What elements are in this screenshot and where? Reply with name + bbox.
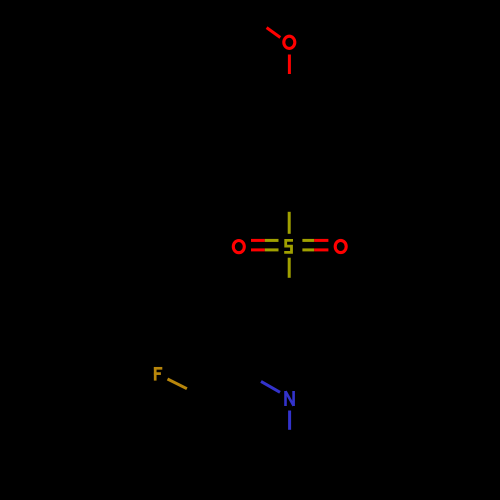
wire double bond S=O2 lower line sulfur half [265,248,279,251]
wire benzene bond C2-C3 [329,116,332,163]
wire bond CH3-O1 oxygen half [267,28,281,38]
wire pyridine bond C10-C11 [248,450,290,474]
wire bond C13-F fluorine half [168,379,187,389]
wire bond C4-S carbon half [288,187,291,212]
wire double bond S=O2 upper line sulfur half [265,239,279,242]
wire benzene bond C3-C4 [289,163,330,187]
wire double bond S=O2 lower line oxygen half [251,248,265,251]
wire bond C9-N nitrogen half [261,381,280,392]
wire double bond S=O3 lower line sulfur half [302,248,314,251]
wire pyridine bond C12-C13 [205,399,208,450]
wire benzene bond C6-C1 [248,92,289,116]
wire bond S-C7 sulfur half [288,258,291,278]
wire benzene bond C1-C2 [289,92,330,116]
atom label F (fluorine) [154,367,162,381]
wire pyridine bond C11-C12 [207,450,249,474]
atom label S (sulfonyl sulfur) [284,240,293,252]
wire bond O1-C1 oxygen half [288,55,291,75]
wire bond N-C10 nitrogen half [288,411,291,430]
wire double bond S=O2 upper line oxygen half [251,239,265,242]
wire bond C4-S sulfur half [288,212,291,234]
wire double bond S=O3 upper line oxygen half [314,239,328,242]
wire benzene bond C5-C6 [247,116,250,163]
wire bond C8-C9 [247,323,250,373]
wire bond N-C10 carbon half [288,430,291,450]
atom label O1 (methoxy oxygen) [284,36,295,48]
wire bond C13-F carbon half [187,389,207,399]
atom label O3 (right sulfonyl oxygen) [335,240,346,252]
wire bond O1-C1 carbon half [288,74,291,92]
wire bond C9-N carbon half [248,373,261,382]
wire bond S-C7 carbon half [288,278,291,299]
atom label O2 (left sulfonyl oxygen) [233,241,244,253]
wire double bond S=O3 upper line sulfur half [302,239,314,242]
wire benzene bond C4-C5 [248,163,289,187]
atom label N (pyridine nitrogen) [286,391,294,406]
wire double bond S=O3 lower line oxygen half [314,248,328,251]
wire bond CH3-O1 carbon half [253,18,267,28]
wire bond C7-C8 [248,299,289,323]
wire pyridine bond C13-C9 [207,373,249,399]
